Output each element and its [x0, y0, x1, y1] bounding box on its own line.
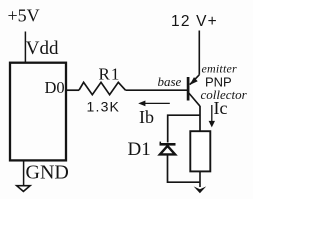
- svg-text:D0: D0: [45, 78, 65, 97]
- wire R1 to base: [126, 89, 188, 91]
- wire collector junction to D1 branch: [168, 115, 200, 142]
- wire D1 to bottom junction: [167, 156, 169, 184]
- svg-text:D1: D1: [128, 139, 151, 160]
- svg-text:Ib: Ib: [139, 107, 154, 127]
- resistor R2 (load box): [190, 131, 210, 171]
- svg-text:Vdd: Vdd: [26, 38, 59, 59]
- wire D0 to R1: [66, 89, 79, 91]
- svg-text:base: base: [158, 74, 182, 89]
- current arrow Ic: [209, 105, 215, 127]
- ground (left, open triangle): [17, 186, 30, 192]
- ground (right, filled arrow): [194, 186, 207, 193]
- svg-text:+5V: +5V: [8, 6, 40, 26]
- resistor R1 zigzag: [79, 82, 126, 94]
- wire GND pin to ground: [23, 162, 25, 187]
- transistor Q1 PNP: [188, 75, 200, 106]
- svg-text:1.3K: 1.3K: [87, 98, 121, 114]
- svg-text:R1: R1: [99, 64, 121, 83]
- wire bottom junction D1 to R2: [168, 181, 201, 183]
- svg-text:Ic: Ic: [214, 98, 228, 118]
- IC box U1 (Vdd / D0 / GND): [10, 63, 66, 161]
- wire +5V to Vdd pin: [24, 32, 26, 63]
- svg-text:emitter: emitter: [202, 62, 238, 76]
- svg-text:12 V+: 12 V+: [171, 13, 218, 30]
- current arrow Ib: [138, 101, 170, 107]
- diode D1: [160, 142, 176, 155]
- wire R2 bottom to ground: [199, 172, 201, 188]
- svg-text:GND: GND: [26, 162, 69, 184]
- wire 12V+ to emitter: [198, 31, 200, 75]
- wire collector down to R2: [199, 106, 201, 132]
